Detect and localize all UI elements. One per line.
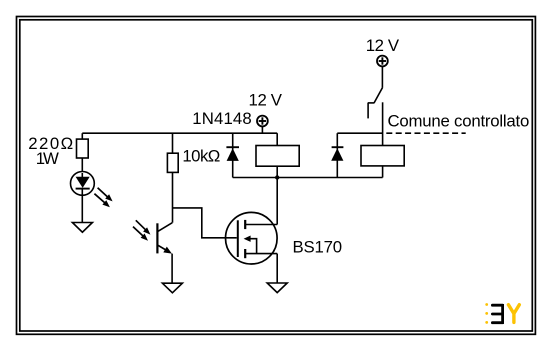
svg-text:BS170: BS170 [293,237,343,256]
light arrow 1 into Q1 [136,220,151,234]
wire: right group top rail [337,132,382,134]
phototransistor Q1 [157,223,172,284]
LED light arrow 1 [98,188,113,202]
light arrow 2 into Q1 [133,227,148,241]
wire: bottom rail [233,177,383,179]
svg-text:12 V: 12 V [249,90,283,109]
switch SW1 [368,87,383,118]
supply 12V middle [257,116,268,134]
dashed net line [386,132,465,134]
svg-text:12 V: 12 V [366,36,400,55]
logo ElectroYou [485,303,519,324]
svg-text:10kΩ: 10kΩ [182,147,220,166]
svg-text:1W: 1W [36,149,59,168]
relay coil K2 [361,102,404,177]
diode D1 1N4148 [226,133,239,177]
svg-text:Comune controllato: Comune controllato [388,112,530,131]
resistor R2 10kΩ [167,133,178,223]
wire: source down to ground [276,254,278,283]
ground under Q1 emitter [162,283,182,293]
svg-text:1N4148: 1N4148 [192,109,251,128]
LED light arrow 2 [94,194,110,208]
wire: drain up to node [276,178,278,225]
MOSFET BS170 U1 [226,212,278,264]
ground under LED [72,223,92,233]
wire: main top rail [82,132,277,134]
resistor R1 220Ω 1W [77,133,89,171]
ground under MOSFET source [267,283,287,293]
relay coil K1 [256,133,299,177]
supply 12V top right [377,56,388,88]
junction node drain [275,175,279,179]
diode D2 [331,133,343,177]
LED D3 [71,172,95,223]
wire: collector to gate [173,208,237,238]
